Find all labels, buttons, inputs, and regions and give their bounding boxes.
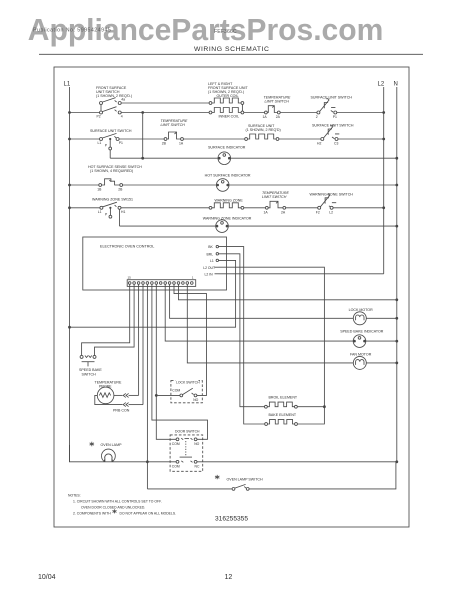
motor lock motor <box>349 308 373 325</box>
svg-text:P2: P2 <box>97 115 101 119</box>
switch hot surface sense switch 1B/2B <box>97 179 123 192</box>
svg-text:L1: L1 <box>210 259 214 263</box>
wire row D to warning zone element <box>121 207 209 209</box>
svg-text:SPEED BAKE: SPEED BAKE <box>79 368 102 372</box>
svg-text:C3: C3 <box>334 142 338 146</box>
svg-text:NO: NO <box>194 442 199 446</box>
heater element warning zone <box>209 198 244 209</box>
svg-text:1A: 1A <box>264 210 269 214</box>
wire L1 bus <box>69 87 71 462</box>
svg-text:(1 SHOWN, 2 REQ'D.): (1 SHOWN, 2 REQ'D.) <box>96 94 132 98</box>
svg-text:F2: F2 <box>316 210 320 214</box>
svg-text:2B: 2B <box>118 188 123 192</box>
wire terminal 15 to speed bake switch left <box>82 284 130 355</box>
heater element inner coil <box>209 108 244 119</box>
schematic border <box>54 67 409 527</box>
svg-text:OVEN DOOR CLOSED AND UNLOCKED.: OVEN DOOR CLOSED AND UNLOCKED. <box>81 505 145 509</box>
svg-text:DOOR SWITCH: DOOR SWITCH <box>175 429 200 433</box>
svg-text:(1 SHOWN, 4 REQUIRED): (1 SHOWN, 4 REQUIRED) <box>90 169 133 173</box>
svg-text:LOCK MOTOR: LOCK MOTOR <box>349 308 373 312</box>
svg-text:1. CIRCUIT SHOWN WITH ALL CON: 1. CIRCUIT SHOWN WITH ALL CONTROLS SET T… <box>73 500 162 504</box>
svg-text:BROIL ELEMENT: BROIL ELEMENT <box>269 395 298 399</box>
svg-text:FEF366C: FEF366C <box>214 29 237 35</box>
svg-text:N: N <box>394 82 398 88</box>
svg-text:L1: L1 <box>98 141 102 145</box>
svg-text:WARNING ZONE: WARNING ZONE <box>215 198 244 202</box>
wire BK to bake element feed <box>219 247 265 424</box>
wire terminal 13 to probe upper <box>138 284 140 395</box>
terminal L1 <box>210 259 219 263</box>
svg-text:SWITCH: SWITCH <box>82 372 97 376</box>
svg-text:ELECTRONIC OVEN CONTROL: ELECTRONIC OVEN CONTROL <box>100 244 154 248</box>
svg-text:COM: COM <box>172 442 180 446</box>
terminal L2 IN <box>205 272 219 276</box>
svg-text:4a: 4a <box>121 98 125 102</box>
wire terminal 9 to lock switch COM and door switch COM <box>156 284 176 439</box>
svg-text:L2: L2 <box>329 210 333 214</box>
wire terminal 4 to N <box>179 284 397 300</box>
wire L2 IN from L2 bus <box>219 273 384 275</box>
switch warning zone switch L1/P/H1 <box>98 202 126 218</box>
wire terminal 12 to probe lower <box>142 284 144 404</box>
wire terminal 10 to door switch NO (routed) <box>152 284 208 439</box>
wire probe lower to terminal 12 <box>129 404 143 406</box>
svg-text:1A: 1A <box>179 142 184 146</box>
svg-text:LIMIT SWITCH: LIMIT SWITCH <box>161 123 186 127</box>
switch door switch (dashed box) <box>170 429 203 471</box>
svg-text:NO: NO <box>193 398 198 402</box>
header rule <box>39 53 423 55</box>
svg-text:L1: L1 <box>98 210 102 214</box>
wire row A to surface unit switch <box>280 112 317 114</box>
terminal BK <box>208 245 218 249</box>
svg-text:15: 15 <box>128 276 132 280</box>
switch temperature limit switch row A <box>263 96 291 120</box>
wire fan motor to N <box>366 362 397 364</box>
lamp speed bake indicator <box>340 329 384 347</box>
svg-text:COM: COM <box>172 389 180 393</box>
wire row C to indicator <box>123 184 217 186</box>
svg-text:L1: L1 <box>64 82 71 88</box>
svg-text:FAN MOTOR: FAN MOTOR <box>350 352 372 356</box>
svg-text:NOTES:: NOTES: <box>68 494 81 498</box>
wire probe upper to terminal 13 <box>129 394 139 396</box>
wire row A throw 4 to coils <box>121 112 209 114</box>
svg-text:12: 12 <box>225 574 233 581</box>
svg-text:WARNING ZONE INDICATOR: WARNING ZONE INDICATOR <box>203 216 252 220</box>
wire row C: L1 to sense switch <box>68 184 71 187</box>
svg-text:DO NOT APPEAR ON ALL MODELS.: DO NOT APPEAR ON ALL MODELS. <box>120 511 177 515</box>
heater element outer coil <box>209 94 244 104</box>
wire terminal 11 to oven lamp row and lamp switch <box>146 284 148 489</box>
lamp oven lamp <box>90 442 122 462</box>
svg-text:2. COMPONENTS WITH: 2. COMPONENTS WITH <box>73 511 111 515</box>
wire row B to L2 <box>338 138 384 140</box>
switch surface unit switch H2/C3 <box>312 124 354 146</box>
svg-text:OVEN LAMP SWITCH: OVEN LAMP SWITCH <box>227 477 263 481</box>
svg-text:1B: 1B <box>97 188 102 192</box>
wire L1 terminal to L1 bus <box>70 260 236 327</box>
svg-text:COM: COM <box>172 464 180 468</box>
svg-text:L2 IN: L2 IN <box>205 272 214 276</box>
wire broil element to L2 OUT <box>297 406 324 408</box>
terminal L2 OUT <box>203 266 218 270</box>
wire row A to limit switch <box>244 112 265 114</box>
svg-text:WARNING ZONE SW151: WARNING ZONE SW151 <box>92 198 133 202</box>
wire terminal 7 to speed bake indicator row <box>165 284 353 341</box>
switch front surface unit switch P2/4/4a <box>97 98 126 119</box>
svg-text:10/04: 10/04 <box>38 574 56 581</box>
EOC terminal strip <box>127 276 196 287</box>
wire upper pole 4a to outer coil <box>121 102 209 104</box>
svg-text:WARNING ZONE SWITCH: WARNING ZONE SWITCH <box>310 192 354 196</box>
switch speed bake switch <box>79 355 102 376</box>
svg-text:SURFACE INDICATOR: SURFACE INDICATOR <box>208 146 246 150</box>
svg-text:SURFACE UNIT SWITCH: SURFACE UNIT SWITCH <box>90 129 132 133</box>
wire H1 drop to row E <box>119 209 121 226</box>
wire row B: L1 to switch <box>68 138 71 141</box>
svg-text:OUTER COIL: OUTER COIL <box>217 94 239 98</box>
svg-text:LIMIT SWITCH: LIMIT SWITCH <box>262 195 287 199</box>
svg-text:L2 OUT: L2 OUT <box>203 266 215 270</box>
terminal BRL <box>207 252 219 256</box>
svg-text:2B: 2B <box>162 142 167 146</box>
lamp surface indicator <box>208 146 246 165</box>
notes text <box>68 494 176 516</box>
svg-text:1A: 1A <box>263 115 268 119</box>
wire branch from row A down <box>142 113 144 159</box>
svg-text:BK: BK <box>208 245 213 249</box>
wire row B to limit switch <box>119 138 164 140</box>
wire row D to warning zone switch <box>286 207 318 209</box>
wire indicator row to N <box>231 157 397 159</box>
wire BRL to broil element feed <box>219 254 265 407</box>
resistor temperature probe <box>95 380 123 404</box>
svg-text:LIMIT SWITCH: LIMIT SWITCH <box>265 100 290 104</box>
heater element bake element <box>265 413 298 425</box>
wire terminal 6 to lock motor row <box>170 284 354 318</box>
wire lock motor to N <box>366 317 397 319</box>
wire row C to N <box>229 184 397 186</box>
svg-text:P1: P1 <box>333 115 337 119</box>
wire row B to right switch <box>279 138 321 140</box>
svg-text:2A: 2A <box>276 115 281 119</box>
svg-text:P1: P1 <box>119 141 123 145</box>
wire row D: L1 to switch <box>68 206 71 209</box>
wire row D to limit switch <box>244 207 266 209</box>
svg-text:BAKE ELEMENT: BAKE ELEMENT <box>269 413 297 417</box>
svg-text:H2: H2 <box>317 142 321 146</box>
connector PRB CON chevrons <box>113 393 130 412</box>
wire row B to element <box>183 138 244 140</box>
svg-text:INNER COIL: INNER COIL <box>219 115 240 119</box>
heater element broil element <box>265 395 298 408</box>
switch temperature limit switch row B <box>161 119 188 146</box>
wire row D to L2 <box>333 207 384 209</box>
svg-text:WIRING SCHEMATIC: WIRING SCHEMATIC <box>194 46 270 53</box>
wire L2 OUT feed <box>219 267 325 424</box>
svg-text:SPEED BAKE INDICATOR: SPEED BAKE INDICATOR <box>340 329 384 333</box>
svg-text:2: 2 <box>316 115 318 119</box>
wire terminal 2 to fan motor row <box>187 284 353 363</box>
svg-text:Publication No: 5995424945: Publication No: 5995424945 <box>33 28 111 34</box>
switch warning zone switch F2/L2 <box>310 192 354 214</box>
switch temperature limit switch row D <box>262 191 289 215</box>
wire coil tie <box>241 104 243 111</box>
switch oven lamp switch <box>215 475 263 490</box>
wire terminal 14 to speed bake switch right <box>95 284 135 355</box>
svg-text:PRB CON: PRB CON <box>113 408 130 412</box>
svg-text:NC: NC <box>195 464 200 468</box>
wire row E to N <box>228 225 396 227</box>
svg-text:BRL: BRL <box>207 252 214 256</box>
wire oven lamp switch row <box>147 488 232 490</box>
svg-text:OVEN LAMP: OVEN LAMP <box>101 443 123 447</box>
svg-text:HOT SURFACE INDICATOR: HOT SURFACE INDICATOR <box>205 174 251 178</box>
lamp hot surface indicator <box>205 174 251 192</box>
wire row A: L1 to switch <box>68 111 71 114</box>
wire lock switch COM feed <box>156 394 180 396</box>
motor fan motor <box>350 352 372 369</box>
wire N bus <box>396 87 398 462</box>
svg-text:4: 4 <box>121 115 123 119</box>
wire terminal 5 to lock switch NO (routed) <box>174 284 207 395</box>
svg-text:(1 SHOWN, 2 REQ'D): (1 SHOWN, 2 REQ'D) <box>246 128 281 132</box>
heater element surface unit row B <box>245 124 281 140</box>
switch surface unit switch L1/P/P1 <box>98 133 124 150</box>
svg-text:316255355: 316255355 <box>215 516 248 523</box>
wire door switch NC to N <box>197 461 397 463</box>
switch lock switch (dashed box) <box>171 380 202 403</box>
svg-text:H1: H1 <box>121 210 125 214</box>
wire row A to L2 <box>337 112 384 114</box>
svg-text:SURFACE UNIT SWITCH: SURFACE UNIT SWITCH <box>311 96 353 100</box>
IC electronic oven control box <box>83 237 227 290</box>
svg-text:2A: 2A <box>281 210 286 214</box>
switch surface unit switch 2/P1 <box>311 96 353 120</box>
wire speed bake indicator to N <box>366 340 397 342</box>
node junction on row A <box>141 111 144 114</box>
wire oven lamp row from L1 to door switch <box>70 445 177 462</box>
svg-text:L2: L2 <box>378 82 385 88</box>
wire P terminal drop to indicator row <box>109 150 111 158</box>
svg-text:LOCK SWITCH: LOCK SWITCH <box>176 381 200 385</box>
wire L2 bus <box>383 87 385 274</box>
lamp warning zone indicator <box>203 216 252 232</box>
